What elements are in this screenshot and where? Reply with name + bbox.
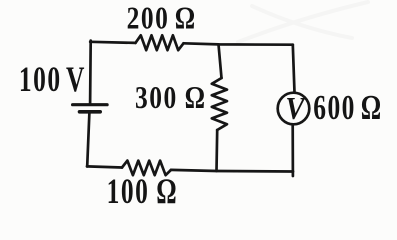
svg-text:200 Ω: 200 Ω: [127, 1, 197, 36]
wire left vertical upper: [89, 41, 92, 104]
wire bottom-right horizontal: [171, 170, 293, 172]
svg-text:600 Ω: 600 Ω: [313, 88, 383, 127]
svg-text:100 Ω: 100 Ω: [107, 171, 179, 211]
wire middle branch upper stub: [219, 44, 222, 78]
wire top-right horizontal: [184, 43, 293, 44]
resistor R1 200ohm zigzag: [136, 35, 184, 50]
wire right vertical lower: [291, 125, 294, 176]
wire left vertical lower: [87, 113, 89, 167]
battery B1 short plate: [80, 110, 101, 114]
svg-text:100 V: 100 V: [19, 59, 86, 99]
voltmeter U1 circle: [278, 93, 310, 125]
svg-text:V: V: [285, 90, 307, 126]
resistor R2 300ohm vertical zigzag: [212, 78, 227, 130]
svg-text:300 Ω: 300 Ω: [135, 81, 207, 116]
wire middle branch lower stub: [215, 130, 218, 171]
wire bottom-left horizontal: [87, 166, 122, 167]
battery B1 long plate: [73, 103, 108, 106]
wire right vertical upper: [293, 45, 295, 93]
wire top-left horizontal: [90, 42, 135, 43]
resistor R3 100ohm zigzag: [122, 161, 171, 176]
